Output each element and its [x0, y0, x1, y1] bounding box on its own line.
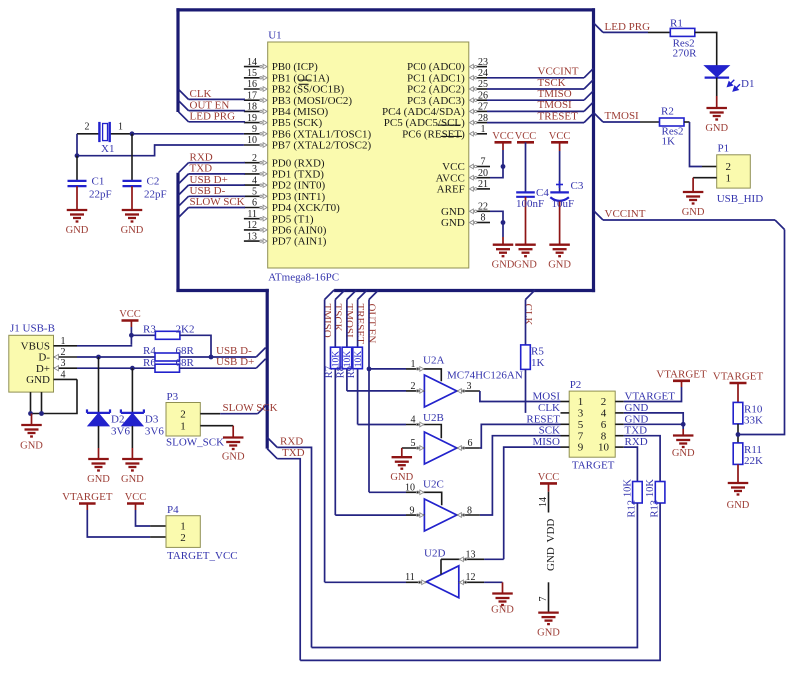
svg-text:GND: GND	[87, 474, 110, 485]
svg-text:AREF: AREF	[437, 184, 465, 196]
svg-text:4: 4	[601, 408, 607, 420]
svg-text:8: 8	[601, 430, 607, 442]
svg-text:2: 2	[180, 408, 186, 420]
svg-text:2: 2	[411, 381, 416, 392]
svg-text:22pF: 22pF	[144, 189, 167, 201]
svg-text:GND: GND	[672, 448, 695, 459]
svg-text:R12: R12	[627, 500, 638, 518]
svg-text:TARGET: TARGET	[572, 459, 615, 471]
svg-text:5: 5	[411, 438, 416, 449]
svg-text:VCCINT: VCCINT	[538, 66, 579, 78]
svg-text:7: 7	[481, 157, 486, 168]
svg-text:68R: 68R	[176, 357, 195, 369]
svg-text:PD1 (TXD): PD1 (TXD)	[272, 169, 325, 181]
svg-text:PC0 (ADC0): PC0 (ADC0)	[407, 61, 465, 73]
svg-text:CLK: CLK	[522, 304, 534, 326]
svg-text:3: 3	[578, 408, 584, 420]
svg-text:R4: R4	[143, 345, 156, 357]
svg-text:PD0 (RXD): PD0 (RXD)	[272, 157, 325, 169]
svg-text:3V6: 3V6	[111, 426, 130, 438]
svg-text:VCC: VCC	[515, 131, 537, 142]
svg-text:8: 8	[467, 505, 472, 516]
svg-text:GND: GND	[66, 225, 89, 236]
svg-text:13: 13	[247, 231, 257, 242]
svg-text:VCC: VCC	[492, 131, 514, 142]
svg-text:TMOSI: TMOSI	[343, 304, 355, 339]
svg-text:1: 1	[118, 122, 123, 133]
svg-text:D2: D2	[111, 414, 124, 426]
svg-text:VCC: VCC	[442, 161, 465, 173]
svg-text:P4: P4	[167, 504, 179, 516]
svg-text:4: 4	[252, 175, 257, 186]
svg-text:19: 19	[247, 113, 257, 124]
svg-text:28: 28	[478, 113, 488, 124]
svg-text:9: 9	[410, 505, 415, 516]
svg-text:USB D+: USB D+	[216, 356, 254, 368]
svg-text:MOSI: MOSI	[532, 391, 560, 403]
svg-text:14: 14	[247, 57, 257, 68]
svg-text:PD4 (XCK/T0): PD4 (XCK/T0)	[272, 202, 340, 214]
svg-text:GND: GND	[727, 500, 750, 511]
svg-text:11: 11	[247, 209, 257, 220]
svg-text:D-: D-	[38, 352, 50, 364]
svg-text:VTARGET: VTARGET	[713, 371, 764, 383]
svg-text:10uF: 10uF	[552, 198, 575, 210]
svg-text:23: 23	[478, 57, 488, 68]
svg-text:GND: GND	[491, 605, 514, 616]
svg-text:10: 10	[247, 135, 257, 146]
svg-text:22pF: 22pF	[89, 189, 112, 201]
svg-text:2K2: 2K2	[176, 323, 195, 335]
svg-text:GND: GND	[682, 207, 705, 218]
svg-text:100nF: 100nF	[516, 198, 544, 210]
svg-text:PB2 (SS/OC1B): PB2 (SS/OC1B)	[272, 84, 345, 96]
svg-text:OUT EN: OUT EN	[190, 99, 230, 111]
svg-text:PB0 (ICP): PB0 (ICP)	[272, 61, 318, 73]
svg-text:9: 9	[578, 442, 584, 454]
svg-text:VCC: VCC	[549, 131, 571, 142]
svg-text:17: 17	[247, 90, 257, 101]
svg-text:USB D-: USB D-	[216, 345, 252, 357]
svg-text:GND: GND	[20, 441, 43, 452]
svg-text:PC2 (ADC2): PC2 (ADC2)	[407, 84, 465, 96]
svg-text:TSCK: TSCK	[538, 77, 566, 89]
svg-text:P1: P1	[718, 143, 730, 155]
svg-text:10K: 10K	[354, 351, 364, 368]
svg-text:GND: GND	[548, 260, 571, 271]
svg-text:GND: GND	[514, 260, 537, 271]
svg-text:PB6 (XTAL1/TOSC1): PB6 (XTAL1/TOSC1)	[272, 128, 372, 140]
svg-text:10: 10	[405, 483, 415, 494]
svg-text:2: 2	[601, 396, 607, 408]
svg-text:3: 3	[252, 164, 257, 175]
svg-text:10K: 10K	[343, 351, 353, 368]
svg-text:GND: GND	[441, 206, 465, 218]
svg-text:1: 1	[180, 521, 186, 533]
svg-text:1: 1	[481, 124, 486, 135]
svg-text:MISO: MISO	[532, 436, 560, 448]
svg-text:1: 1	[180, 420, 186, 432]
svg-text:26: 26	[478, 90, 488, 101]
svg-text:U2C: U2C	[423, 479, 444, 491]
svg-text:USB D-: USB D-	[190, 185, 226, 197]
svg-text:P3: P3	[167, 391, 179, 403]
svg-text:R7: R7	[324, 366, 335, 378]
svg-text:PD7 (AIN1): PD7 (AIN1)	[272, 236, 327, 248]
svg-text:11: 11	[405, 572, 415, 583]
svg-text:TSCK: TSCK	[332, 304, 344, 332]
svg-text:1K: 1K	[531, 357, 545, 369]
svg-text:GND: GND	[222, 452, 245, 463]
svg-text:22: 22	[478, 202, 488, 213]
svg-text:20: 20	[478, 168, 488, 179]
svg-text:TARGET_VCC: TARGET_VCC	[167, 550, 238, 562]
svg-text:VBUS: VBUS	[21, 340, 50, 352]
svg-text:U2D: U2D	[424, 548, 445, 560]
svg-text:GND: GND	[441, 217, 465, 229]
svg-text:R3: R3	[143, 323, 156, 335]
svg-text:MC74HC126AN: MC74HC126AN	[447, 369, 523, 381]
svg-text:10K: 10K	[622, 479, 633, 498]
svg-text:TMOSI: TMOSI	[538, 99, 573, 111]
svg-text:GND: GND	[492, 260, 515, 271]
svg-text:SLOW SCK: SLOW SCK	[190, 196, 245, 208]
svg-text:6: 6	[601, 419, 607, 431]
svg-text:25: 25	[478, 79, 488, 90]
svg-text:X1: X1	[101, 143, 114, 155]
svg-text:TMOSI: TMOSI	[605, 110, 640, 122]
svg-text:9: 9	[252, 124, 257, 135]
svg-text:GND: GND	[537, 628, 560, 639]
svg-text:PC4 (ADC4/SDA): PC4 (ADC4/SDA)	[382, 106, 465, 118]
svg-text:PB4 (MISO): PB4 (MISO)	[272, 106, 329, 118]
svg-text:PD5 (T1): PD5 (T1)	[272, 213, 314, 225]
svg-text:5: 5	[252, 187, 257, 198]
svg-text:2: 2	[252, 153, 257, 164]
svg-text:C1: C1	[92, 176, 105, 188]
svg-text:VTARGET: VTARGET	[656, 368, 707, 380]
svg-text:7: 7	[538, 597, 549, 602]
svg-text:RXD: RXD	[280, 436, 303, 448]
svg-text:2: 2	[726, 161, 732, 173]
svg-text:VDD: VDD	[545, 519, 557, 543]
svg-text:R5: R5	[531, 346, 544, 358]
svg-text:USB_HID: USB_HID	[717, 193, 764, 205]
svg-text:1K: 1K	[662, 135, 676, 147]
svg-text:PB1 (OC1A): PB1 (OC1A)	[272, 72, 330, 84]
svg-text:VCC: VCC	[538, 472, 560, 483]
svg-text:U2A: U2A	[423, 354, 444, 366]
svg-text:TMISO: TMISO	[321, 304, 333, 338]
svg-text:10K: 10K	[645, 479, 656, 498]
svg-text:R2: R2	[661, 105, 674, 117]
svg-text:22K: 22K	[744, 455, 763, 467]
svg-text:3: 3	[467, 381, 472, 392]
svg-text:R8: R8	[335, 366, 346, 378]
svg-text:VCCINT: VCCINT	[605, 208, 646, 220]
svg-text:PC3 (ADC3): PC3 (ADC3)	[407, 95, 465, 107]
svg-text:AVCC: AVCC	[436, 172, 465, 184]
svg-text:GND: GND	[121, 474, 144, 485]
svg-text:7: 7	[578, 430, 584, 442]
svg-text:GND: GND	[390, 472, 413, 483]
svg-text:GND: GND	[121, 225, 144, 236]
svg-text:SLOW SCK: SLOW SCK	[223, 402, 278, 414]
svg-text:4: 4	[411, 415, 416, 426]
svg-text:R1: R1	[670, 17, 683, 29]
svg-text:D3: D3	[145, 414, 159, 426]
svg-text:TRESET: TRESET	[354, 304, 366, 345]
svg-text:10K: 10K	[332, 351, 342, 368]
svg-text:U1: U1	[268, 30, 281, 42]
svg-text:CLK: CLK	[190, 88, 212, 100]
svg-text:GND: GND	[705, 123, 728, 134]
svg-text:21: 21	[478, 179, 488, 190]
svg-text:TXD: TXD	[190, 163, 213, 175]
svg-text:VCC: VCC	[119, 309, 141, 320]
svg-text:C3: C3	[571, 180, 584, 192]
svg-text:R13: R13	[649, 500, 660, 518]
svg-text:1: 1	[411, 359, 416, 370]
svg-text:P2: P2	[570, 379, 582, 391]
svg-text:27: 27	[478, 102, 488, 113]
svg-text:PB7 (XTAL2/TOSC2): PB7 (XTAL2/TOSC2)	[272, 140, 372, 152]
svg-text:ATmega8-16PC: ATmega8-16PC	[268, 272, 339, 284]
svg-text:PC6 (RESET): PC6 (RESET)	[402, 128, 465, 140]
svg-text:VTARGET: VTARGET	[62, 491, 113, 503]
svg-text:6: 6	[468, 438, 473, 449]
svg-text:PC1 (ADC1): PC1 (ADC1)	[407, 72, 465, 84]
svg-text:J1 USB-B: J1 USB-B	[10, 323, 55, 335]
svg-text:D1: D1	[741, 78, 754, 90]
svg-text:CLK: CLK	[538, 402, 560, 414]
svg-text:LED PRG: LED PRG	[605, 21, 651, 33]
svg-text:270R: 270R	[673, 47, 698, 59]
svg-text:6: 6	[252, 198, 257, 209]
svg-text:33K: 33K	[744, 414, 763, 426]
svg-text:PB5 (SCK): PB5 (SCK)	[272, 117, 323, 129]
svg-text:PD3 (INT1): PD3 (INT1)	[272, 191, 326, 203]
svg-text:PD2 (INT0): PD2 (INT0)	[272, 180, 326, 192]
svg-text:14: 14	[538, 497, 549, 507]
svg-text:RXD: RXD	[190, 151, 213, 163]
svg-text:PB3 (MOSI/OC2): PB3 (MOSI/OC2)	[272, 95, 353, 107]
svg-text:VCC: VCC	[125, 492, 147, 503]
svg-text:15: 15	[247, 68, 257, 79]
svg-text:68R: 68R	[176, 345, 195, 357]
svg-text:OUT EN: OUT EN	[365, 304, 377, 344]
svg-text:GND: GND	[545, 547, 557, 571]
svg-text:SCK: SCK	[539, 425, 560, 437]
svg-text:U2B: U2B	[423, 412, 444, 424]
svg-text:PC5 (ADC5/SCL): PC5 (ADC5/SCL)	[384, 117, 465, 129]
svg-text:5: 5	[578, 419, 584, 431]
svg-text:R6: R6	[143, 357, 156, 369]
svg-text:TRESET: TRESET	[538, 110, 579, 122]
svg-text:1: 1	[578, 396, 584, 408]
svg-text:RESET: RESET	[526, 413, 560, 425]
svg-text:PD6 (AIN0): PD6 (AIN0)	[272, 225, 327, 237]
svg-text:1: 1	[726, 172, 732, 184]
svg-text:24: 24	[478, 68, 488, 79]
svg-text:C2: C2	[147, 176, 160, 188]
svg-text:GND: GND	[26, 374, 50, 386]
svg-text:LED PRG: LED PRG	[190, 111, 236, 123]
svg-text:TXD: TXD	[282, 447, 305, 459]
svg-text:D+: D+	[36, 363, 50, 375]
svg-text:2: 2	[85, 122, 90, 133]
svg-text:18: 18	[247, 102, 257, 113]
svg-text:16: 16	[247, 79, 257, 90]
svg-text:TMISO: TMISO	[538, 88, 572, 100]
svg-text:3V6: 3V6	[145, 426, 164, 438]
svg-text:10: 10	[598, 442, 610, 454]
svg-text:SLOW_SCK: SLOW_SCK	[166, 436, 224, 448]
svg-text:2: 2	[180, 532, 186, 544]
svg-text:USB D+: USB D+	[190, 174, 228, 186]
svg-text:8: 8	[481, 213, 486, 224]
svg-text:R9: R9	[346, 366, 357, 378]
svg-text:12: 12	[247, 220, 257, 231]
